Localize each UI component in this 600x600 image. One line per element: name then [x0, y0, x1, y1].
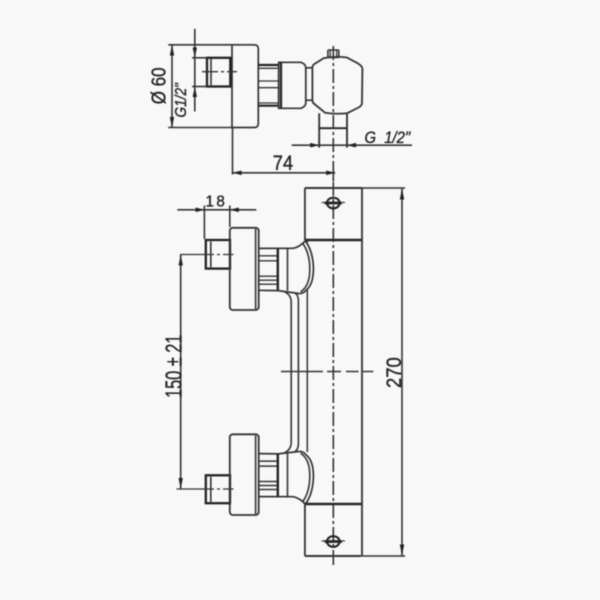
svg-text:G1/2": G1/2": [173, 82, 190, 117]
svg-text:150 ± 21: 150 ± 21: [162, 335, 187, 398]
svg-text:Ø 60: Ø 60: [147, 67, 170, 104]
svg-text:74: 74: [273, 151, 293, 175]
svg-text:18: 18: [206, 193, 228, 210]
svg-text:G 1/2": G 1/2": [365, 129, 412, 147]
svg-text:270: 270: [383, 357, 406, 388]
